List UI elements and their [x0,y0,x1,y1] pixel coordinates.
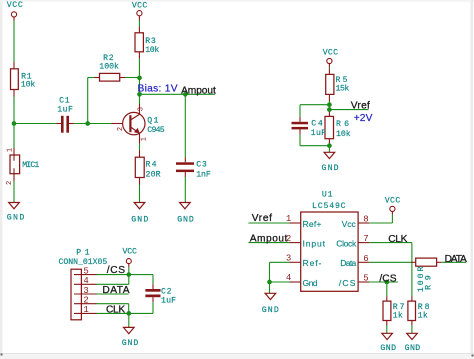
svg-text:3: 3 [83,286,88,296]
svg-text:1: 1 [6,148,14,152]
svg-text:VCC: VCC [7,1,23,10]
svg-text:VCC: VCC [132,2,147,11]
svg-text:1k: 1k [393,311,403,321]
svg-text:Ampout: Ampout [250,234,288,245]
svg-text:VCC: VCC [323,48,338,57]
svg-text:10k: 10k [336,129,351,139]
svg-text:15k: 15k [336,84,350,94]
svg-text:GND: GND [177,216,194,225]
svg-text:7: 7 [363,234,368,244]
svg-text:GND: GND [322,164,339,173]
svg-text:CLK: CLK [106,305,125,316]
svg-text:Vref: Vref [351,101,370,112]
svg-text:1: 1 [83,305,88,315]
svg-text:10k: 10k [21,80,35,90]
svg-text:+2V: +2V [354,113,373,124]
svg-text:3: 3 [286,254,291,264]
svg-text:1uF: 1uF [311,129,326,138]
svg-text:1nF: 1nF [196,170,211,179]
svg-text:1k: 1k [418,311,428,321]
svg-text:GND: GND [380,344,396,353]
svg-text:VCC: VCC [123,247,137,256]
svg-text:GND: GND [262,306,279,315]
svg-text:Vcc: Vcc [342,219,357,229]
svg-text:3: 3 [137,107,145,111]
svg-text:DATA: DATA [445,254,467,265]
svg-text:20R: 20R [146,170,161,179]
svg-text:GND: GND [7,214,25,223]
svg-text:Gnd: Gnd [303,278,318,288]
svg-text:Bias: 1V: Bias: 1V [138,83,178,94]
svg-text:2: 2 [6,181,14,185]
svg-text:Vref: Vref [252,213,272,224]
svg-text:U1: U1 [322,191,333,200]
svg-text:10k: 10k [145,45,159,55]
svg-text:Data: Data [340,258,356,268]
svg-text:/CS: /CS [107,265,126,276]
svg-text:5: 5 [363,274,368,284]
svg-text:6: 6 [363,254,368,264]
svg-text:Clock: Clock [336,238,357,248]
svg-text:8: 8 [363,215,368,225]
svg-text:1uF: 1uF [161,296,176,305]
svg-text:R4: R4 [146,161,157,170]
svg-text:C1: C1 [59,97,70,106]
svg-text:Q1: Q1 [147,117,158,126]
svg-text:R3: R3 [145,37,156,46]
svg-text:2: 2 [286,234,291,244]
svg-text:Ref+: Ref+ [303,219,322,229]
svg-text:100k: 100k [99,62,119,72]
svg-text:GND: GND [131,216,148,225]
svg-text:/CS: /CS [339,278,356,288]
svg-text:C4: C4 [311,119,323,128]
svg-text:1: 1 [286,214,291,224]
svg-text:2: 2 [83,296,88,306]
svg-text:4: 4 [83,276,88,286]
svg-text:1uF: 1uF [57,106,73,115]
svg-text:MIC1: MIC1 [22,161,39,170]
svg-text:GND: GND [405,344,421,353]
svg-text:VCC: VCC [385,196,401,205]
svg-text:5: 5 [83,266,88,276]
svg-text:CLK: CLK [388,234,407,245]
svg-text:/CS: /CS [379,273,396,284]
svg-text:Ref-: Ref- [303,258,322,268]
svg-text:2: 2 [117,127,125,131]
svg-text:DATA: DATA [102,285,129,296]
svg-text:Input: Input [303,238,326,248]
svg-text:1: 1 [140,137,148,141]
svg-text:C3: C3 [196,161,207,170]
svg-text:GND: GND [122,339,139,348]
svg-text:Ampout: Ampout [181,85,216,96]
svg-text:LC549C: LC549C [312,202,346,211]
svg-text:C945: C945 [147,126,164,135]
svg-text:4: 4 [286,273,291,283]
